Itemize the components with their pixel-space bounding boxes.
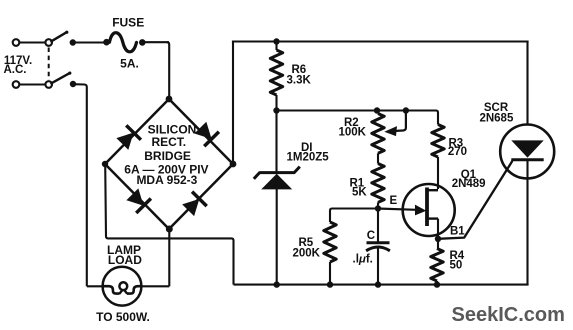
svg-text:BRIDGE: BRIDGE: [144, 149, 191, 163]
svg-text:MDA 952-3: MDA 952-3: [136, 173, 197, 187]
svg-text:200K: 200K: [293, 248, 321, 260]
svg-text:LOAD: LOAD: [108, 253, 142, 267]
svg-text:RECT.: RECT.: [151, 135, 186, 149]
svg-text:FUSE: FUSE: [112, 16, 144, 30]
svg-text:C: C: [367, 230, 375, 242]
svg-text:E: E: [390, 195, 398, 207]
svg-text:2N489: 2N489: [452, 178, 486, 190]
svg-text:1M20Z5: 1M20Z5: [287, 152, 330, 164]
svg-text:50: 50: [450, 260, 463, 272]
svg-text:3.3K: 3.3K: [287, 75, 312, 87]
svg-text:5K: 5K: [352, 187, 367, 199]
svg-text:.lμf.: .lμf.: [353, 253, 373, 265]
svg-text:270: 270: [448, 146, 467, 158]
svg-text:A.C.: A.C.: [4, 64, 27, 76]
svg-text:2N685: 2N685: [479, 112, 513, 124]
svg-text:SeekIC.com: SeekIC.com: [452, 304, 565, 326]
svg-text:TO 500W.: TO 500W.: [96, 310, 150, 324]
svg-text:B1: B1: [450, 225, 465, 237]
svg-text:5A.: 5A.: [120, 57, 139, 71]
svg-text:100K: 100K: [339, 127, 367, 139]
